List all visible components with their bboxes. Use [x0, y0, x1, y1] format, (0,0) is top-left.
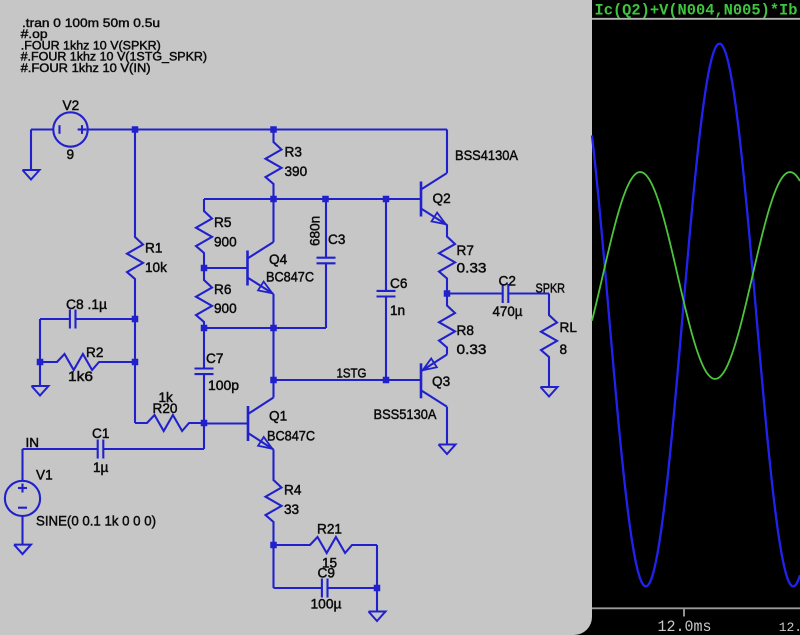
- wire: [40, 361, 45, 363]
- svg-text:8: 8: [560, 342, 568, 357]
- wire: [204, 422, 248, 424]
- node junction: [444, 290, 451, 297]
- wire: [21, 449, 23, 481]
- green trace waveform: [592, 172, 800, 379]
- node junction: [270, 542, 277, 549]
- wire: [88, 128, 447, 130]
- capacitor C2: [447, 292, 503, 294]
- resistor R8: [439, 294, 455, 355]
- transistor Q2 collector: [421, 173, 447, 190]
- node junction: [270, 196, 277, 203]
- wire: [274, 379, 421, 381]
- svg-text:Q1: Q1: [269, 409, 287, 424]
- svg-text:RL: RL: [560, 320, 578, 335]
- svg-text:R4: R4: [284, 483, 302, 498]
- capacitor C3: [325, 199, 327, 258]
- node junction: [132, 359, 139, 366]
- svg-text:V2: V2: [63, 98, 80, 113]
- capacitor C9: [274, 587, 322, 589]
- svg-text:SPKR: SPKR: [536, 282, 566, 296]
- svg-text:C6: C6: [390, 276, 407, 291]
- transistor Q3 collector: [421, 390, 447, 407]
- svg-text:12.0ms: 12.0ms: [658, 618, 712, 635]
- svg-text:10k: 10k: [145, 260, 167, 275]
- transistor Q3 emitter: [421, 355, 447, 372]
- wire: [203, 423, 205, 449]
- svg-text:R5: R5: [214, 215, 231, 230]
- capacitor C1: [23, 448, 98, 450]
- svg-text:900: 900: [214, 235, 237, 250]
- ground at RL: [541, 387, 558, 397]
- node junction: [132, 316, 139, 323]
- wire: [39, 319, 41, 362]
- svg-text:C8 .1µ: C8 .1µ: [66, 297, 107, 312]
- node junction: [37, 359, 44, 366]
- ground at R2: [32, 386, 49, 396]
- node junction: [270, 377, 277, 384]
- svg-text:C7: C7: [206, 351, 223, 366]
- svg-text:Ic(Q2)+V(N004,N005)*Ib: Ic(Q2)+V(N004,N005)*Ib: [595, 2, 798, 20]
- wire: [31, 128, 53, 130]
- title bar separator: [592, 18, 800, 20]
- svg-text:#.FOUR 1khz 10 V(IN): #.FOUR 1khz 10 V(IN): [21, 61, 151, 75]
- svg-text:1STG: 1STG: [337, 367, 367, 381]
- svg-text:Q2: Q2: [433, 191, 451, 206]
- node junction: [132, 126, 139, 133]
- wire: [272, 328, 274, 380]
- wire: [272, 450, 274, 469]
- svg-text:V1: V1: [36, 468, 53, 483]
- time axis tick: [683, 608, 685, 616]
- voltage source V2: [53, 112, 87, 146]
- capacitor C7: [203, 328, 205, 369]
- wire: [446, 130, 448, 174]
- transistor Q1 collector: [248, 398, 274, 415]
- capacitor C6: [385, 199, 387, 291]
- waveform plot title bar: [592, 0, 800, 18]
- svg-text:C3: C3: [328, 232, 345, 247]
- ground at V2: [23, 170, 40, 180]
- transistor Q2 base bar: [420, 182, 423, 217]
- svg-text:1µ: 1µ: [93, 460, 109, 475]
- wire: [204, 198, 421, 200]
- wire: [134, 285, 136, 319]
- wire: [272, 545, 274, 588]
- resistor R6: [196, 268, 212, 328]
- wire: [376, 545, 378, 588]
- ground at V1: [14, 545, 31, 555]
- resistor R7: [439, 225, 455, 294]
- svg-text:R1: R1: [145, 241, 162, 256]
- wire: [204, 327, 326, 329]
- svg-text:C9: C9: [318, 566, 335, 581]
- wire: [204, 267, 248, 269]
- blue trace Ic(Q2) waveform: [592, 44, 800, 587]
- time axis: [592, 607, 800, 609]
- svg-text:C1: C1: [92, 426, 109, 441]
- node junction: [201, 265, 208, 272]
- resistor R5: [196, 199, 212, 268]
- voltage source V1: [5, 481, 40, 516]
- wire: [21, 516, 23, 545]
- svg-text:470µ: 470µ: [493, 304, 523, 319]
- resistor R21: [298, 537, 377, 553]
- svg-text:1k6: 1k6: [68, 369, 93, 384]
- svg-text:BC847C: BC847C: [267, 429, 315, 444]
- svg-text:9: 9: [67, 147, 75, 162]
- transistor Q1 base bar: [247, 406, 250, 441]
- node junction: [201, 325, 208, 332]
- svg-text:0.33: 0.33: [457, 261, 487, 276]
- node junction: [374, 585, 381, 592]
- wire: [274, 544, 299, 546]
- svg-text:BSS4130A: BSS4130A: [455, 148, 519, 163]
- transistor Q2 emitter: [421, 209, 447, 226]
- resistor R1: [127, 225, 143, 285]
- wire: [548, 294, 550, 304]
- transistor Q4 collector: [248, 242, 274, 259]
- svg-text:390: 390: [285, 164, 308, 179]
- transistor Q4 base bar: [246, 251, 249, 286]
- svg-text:R6: R6: [214, 282, 231, 297]
- transistor Q3 base bar: [420, 363, 423, 398]
- node junction: [270, 325, 277, 332]
- svg-text:1n: 1n: [390, 303, 405, 318]
- node junction: [383, 377, 390, 384]
- ground at Q3: [439, 445, 456, 455]
- schematic window background: [0, 0, 592, 635]
- resistor R3: [266, 130, 282, 199]
- transistor Q1 emitter: [248, 433, 274, 450]
- resistor R4: [266, 468, 282, 545]
- svg-text:R2: R2: [86, 345, 103, 360]
- node junction: [270, 126, 277, 133]
- wire: [134, 319, 136, 362]
- svg-text:R3: R3: [285, 145, 302, 160]
- wire: [39, 362, 41, 386]
- resistor R2: [45, 354, 135, 370]
- svg-text:100µ: 100µ: [311, 597, 342, 612]
- svg-text:BC847C: BC847C: [266, 270, 314, 285]
- svg-text:Q4: Q4: [269, 252, 288, 267]
- capacitor C8: [40, 318, 70, 320]
- svg-text:12.5ms: 12.5ms: [779, 620, 800, 635]
- transistor Q4 emitter: [248, 278, 274, 295]
- svg-text:BSS5130A: BSS5130A: [374, 407, 438, 422]
- wire: [376, 588, 378, 612]
- svg-text:680n: 680n: [308, 216, 323, 246]
- node junction: [383, 196, 390, 203]
- node junction: [201, 420, 208, 427]
- svg-text:R8: R8: [457, 323, 474, 338]
- wire: [272, 294, 274, 328]
- svg-text:900: 900: [214, 301, 237, 316]
- svg-text:R21: R21: [317, 522, 342, 537]
- svg-text:SINE(0 0.1 1k 0 0 0): SINE(0 0.1 1k 0 0 0): [36, 514, 156, 529]
- svg-text:100p: 100p: [208, 378, 239, 393]
- svg-text:IN: IN: [26, 436, 40, 450]
- resistor RL: [541, 303, 557, 387]
- svg-text:0.33: 0.33: [457, 342, 487, 357]
- svg-text:Q3: Q3: [432, 374, 450, 389]
- wire: [134, 362, 136, 423]
- svg-text:R7: R7: [457, 243, 474, 258]
- svg-text:C2: C2: [499, 274, 516, 289]
- node junction: [322, 196, 329, 203]
- svg-text:33: 33: [284, 502, 299, 517]
- resistor R20: [135, 415, 204, 431]
- svg-text:R20: R20: [153, 401, 178, 416]
- wire: [134, 130, 136, 226]
- ground at C9: [369, 612, 386, 622]
